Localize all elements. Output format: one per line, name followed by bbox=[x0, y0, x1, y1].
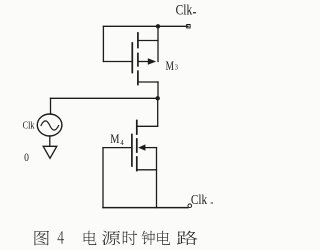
terminal pin: top right Clk- port bbox=[187, 25, 190, 28]
svg-text:Clk: Clk bbox=[23, 120, 36, 131]
terminal pin: bottom right Clk port bbox=[188, 204, 192, 208]
svg-text:M: M bbox=[110, 132, 119, 146]
wire: bottom rail Clk net bbox=[103, 207, 188, 209]
caption char 钟 bbox=[142, 231, 156, 245]
svg-text:3: 3 bbox=[175, 64, 179, 71]
transistor M3 bulk arrow head bbox=[148, 58, 156, 64]
wire: left vertical (M4 gate to bottom rail) bbox=[102, 148, 104, 208]
svg-text:4: 4 bbox=[120, 139, 124, 147]
wire: M4 bulk/source vertical to bottom rail bbox=[156, 148, 158, 208]
transistor M4 channel bar (3 segments) bbox=[136, 121, 138, 171]
transistor M3 drain stub bbox=[138, 40, 158, 42]
transistor M4 drain stub bbox=[137, 125, 158, 127]
transistor M4 gate bar bbox=[131, 135, 133, 167]
wire: left feedback vertical (M3 gate to top rail) bbox=[102, 26, 104, 61]
transistor M3 channel bar (3 segments) bbox=[137, 33, 139, 85]
wire: M3 source down to mid node bbox=[157, 82, 159, 98]
svg-text:Clk: Clk bbox=[176, 3, 193, 19]
ground symbol triangle bbox=[43, 146, 57, 158]
wire: Clk source bottom lead bbox=[49, 136, 51, 146]
transistor M3 source stub bbox=[138, 81, 158, 83]
wire: M3 gate lead bbox=[103, 61, 131, 63]
AC source sine symbol bbox=[41, 121, 59, 130]
svg-text:0: 0 bbox=[24, 150, 29, 164]
transistor M4 bulk arrow shaft bbox=[144, 147, 157, 149]
wire: M4 drain vertical from mid node bbox=[157, 98, 159, 126]
caption char 电 (2nd) bbox=[157, 231, 170, 245]
AC source circle bbox=[37, 114, 62, 136]
wire: mid rail from Clk source to node bbox=[51, 97, 159, 99]
transistor M4 source stub bbox=[137, 169, 157, 171]
caption char 电 (1st) bbox=[84, 231, 97, 245]
caption char 图 bbox=[35, 231, 50, 246]
transistor M4 bulk arrow head bbox=[138, 144, 145, 150]
caption char 路 bbox=[177, 231, 198, 245]
svg-text:M: M bbox=[166, 59, 174, 73]
svg-text:Clk: Clk bbox=[191, 192, 208, 208]
caption char 源 bbox=[102, 231, 120, 245]
junction dot: top rail / M3 drain bbox=[156, 24, 160, 28]
wire: top rail Clk- net bbox=[103, 25, 188, 27]
wire: Clk source top lead bbox=[50, 98, 52, 114]
wire: M3 drain/bulk vertical to top rail bbox=[157, 26, 159, 61]
caption digit 4 bbox=[58, 231, 64, 244]
junction dot: mid node bbox=[156, 96, 160, 100]
transistor M3 gate bar bbox=[131, 43, 133, 73]
wire: M4 gate lead bbox=[103, 147, 132, 149]
transistor M3 bulk arrow shaft bbox=[139, 61, 152, 63]
caption char 时 bbox=[123, 231, 137, 245]
